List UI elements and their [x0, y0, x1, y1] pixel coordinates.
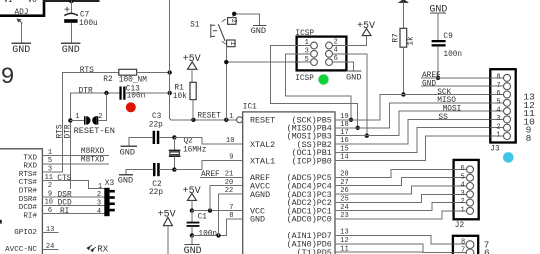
- wire VCC to IC1 pin7: [192, 210, 243, 212]
- wire AGND to IC1 pin22: [219, 194, 243, 235]
- junction AGND branch: [216, 233, 220, 237]
- svg-text:GND: GND: [12, 45, 30, 56]
- svg-text:GND: GND: [62, 45, 80, 56]
- LED RX (arrows + label): [86, 244, 108, 254]
- svg-text:20: 20: [225, 179, 233, 187]
- junction SCK/PB5: [349, 118, 353, 122]
- junction R1/RESET: [191, 118, 195, 122]
- svg-text:9: 9: [229, 154, 233, 162]
- wire XTAL2 to IC1 pin10: [174, 137, 242, 144]
- svg-text:7: 7: [229, 204, 233, 212]
- svg-text:(T1)PD5: (T1)PD5: [297, 248, 332, 254]
- svg-text:GND: GND: [251, 26, 266, 36]
- wire PD6 to J1 pin7: [335, 244, 466, 253]
- wire +5V rail from regulator output: [44, 0, 99, 2]
- red marker dot: [126, 102, 136, 112]
- svg-text:5: 5: [496, 98, 500, 106]
- svg-text:1: 1: [229, 113, 233, 121]
- svg-text:RI#: RI#: [23, 212, 37, 220]
- svg-text:DTR#: DTR#: [19, 188, 38, 196]
- IC1 right pin numbers: [340, 113, 348, 253]
- pin ADJ arrow: [17, 19, 23, 23]
- junction C13/rail: [168, 91, 172, 95]
- ground (regulator ADJ): [12, 43, 31, 56]
- svg-text:DSR#: DSR#: [19, 196, 38, 204]
- svg-text:100n: 100n: [127, 93, 146, 101]
- svg-text:C3: C3: [152, 113, 162, 121]
- connector J1: [453, 236, 478, 254]
- wire DCD# to X3 pin3: [42, 200, 104, 208]
- wire PB1 to J3 pin2: [335, 128, 503, 153]
- wire PC1 to J2 pin2: [335, 203, 466, 211]
- +5V supply (R1 pull-up): [183, 54, 201, 82]
- wire PD7 to J1 pin8: [335, 235, 466, 244]
- svg-text:RXD: RXD: [23, 163, 37, 171]
- svg-text:100n: 100n: [198, 231, 217, 239]
- wire PB0 to J3 pin1: [335, 136, 503, 161]
- junction XTAL2 node: [172, 135, 176, 139]
- svg-text:100_NM: 100_NM: [119, 76, 147, 84]
- svg-text:6: 6: [461, 165, 465, 173]
- wire PB4 to J3 MISO: [335, 103, 503, 128]
- connector X3: [97, 180, 115, 216]
- +5V supply (VCC/C1): [183, 186, 201, 211]
- svg-text:MOSI: MOSI: [443, 106, 462, 114]
- capacitor C2 22p: [126, 163, 174, 197]
- IC1 pin 1 RESET bubble: [229, 113, 242, 123]
- cut text fragment at left edge: [0, 220, 2, 224]
- wire GPIO2 stub: [42, 232, 57, 234]
- wire AVCC-NC stub: [42, 248, 57, 250]
- ICSP header: [295, 30, 346, 83]
- svg-text:4: 4: [496, 107, 500, 115]
- svg-text:GND: GND: [120, 148, 135, 158]
- svg-text:100n: 100n: [443, 51, 462, 59]
- ground (C9): [429, 4, 447, 40]
- capacitor C3 22p: [129, 113, 175, 145]
- junction on +5V rail: [69, 0, 74, 3]
- wire ADJ to ground: [21, 23, 23, 43]
- wire PB2 to J3 SS: [335, 119, 503, 144]
- svg-text:GND: GND: [346, 73, 361, 83]
- svg-text:4: 4: [461, 182, 465, 190]
- svg-text:(ADC0)PC0: (ADC0)PC0: [287, 215, 332, 225]
- junction DTR/jumper branch: [104, 91, 108, 95]
- svg-text:1: 1: [461, 207, 465, 215]
- svg-text:8: 8: [461, 238, 465, 246]
- svg-text:GND: GND: [422, 81, 436, 89]
- ground (C1): [184, 245, 202, 254]
- connector J2: [454, 160, 479, 230]
- voltage regulator IC (top-left, partly cut): [0, 0, 44, 17]
- wire ICSP pin1 MISO to PB4: [271, 46, 358, 128]
- svg-text:DTR: DTR: [79, 87, 93, 95]
- green marker dot: [318, 74, 328, 84]
- svg-text:S1: S1: [190, 22, 200, 30]
- junction C9/AREF: [436, 76, 440, 80]
- reset rail (vertical) to RESET line: [170, 0, 237, 120]
- svg-text:6: 6: [334, 55, 338, 63]
- svg-text:1: 1: [98, 183, 102, 191]
- svg-text:21: 21: [225, 171, 233, 179]
- svg-text:7: 7: [496, 82, 500, 90]
- FT232 USB chip (left, partly cut): [0, 149, 42, 254]
- pushbutton S1: [190, 18, 237, 47]
- wire PB5 to J3 SCK: [335, 95, 503, 120]
- svg-text:1: 1: [75, 113, 79, 121]
- ground (C3): [120, 146, 137, 158]
- svg-text:RTS: RTS: [80, 67, 94, 75]
- svg-text:10k: 10k: [173, 93, 187, 101]
- +5V supply (ICSP): [357, 21, 375, 36]
- svg-text:100u: 100u: [79, 20, 98, 28]
- wire PD5 row: [335, 251, 423, 253]
- svg-text:Q2: Q2: [184, 138, 194, 146]
- wire PC0 to J2 pin1: [335, 211, 466, 219]
- svg-text:1: 1: [496, 132, 500, 140]
- wire PC3 to J2 pin4: [335, 186, 466, 194]
- wire PB3 to J3 MOSI: [335, 111, 503, 136]
- svg-text:2: 2: [97, 191, 101, 199]
- svg-text:2: 2: [48, 182, 52, 190]
- svg-text:7: 7: [461, 247, 465, 254]
- wire AREF to J3 pin8: [422, 77, 504, 79]
- junction S1/RESET: [224, 118, 228, 122]
- svg-text:1k: 1k: [408, 36, 416, 46]
- svg-text:6: 6: [484, 248, 490, 254]
- svg-text:TXD: TXD: [23, 154, 37, 162]
- wire PC4 to J2 pin5: [335, 178, 466, 186]
- svg-text:2: 2: [334, 38, 338, 46]
- svg-text:C9: C9: [443, 33, 453, 41]
- svg-text:XTAL2: XTAL2: [250, 140, 275, 150]
- wire PC5 to J2 pin6: [335, 169, 466, 177]
- svg-text:IC1: IC1: [243, 104, 257, 112]
- svg-text:3: 3: [496, 115, 500, 123]
- svg-text:DTR: DTR: [64, 124, 72, 138]
- svg-text:J3: J3: [490, 146, 500, 154]
- +5V supply (standalone, near X3): [158, 209, 176, 254]
- svg-text:5: 5: [305, 56, 309, 64]
- svg-text:RESET-EN: RESET-EN: [74, 126, 115, 136]
- ground (C7): [62, 43, 81, 56]
- svg-text:22p: 22p: [149, 121, 163, 129]
- svg-text:6: 6: [496, 90, 500, 98]
- svg-text:CTS: CTS: [57, 175, 71, 183]
- svg-text:2: 2: [229, 19, 237, 23]
- svg-text:5: 5: [461, 173, 465, 181]
- svg-text:3: 3: [461, 190, 465, 198]
- IC1 ATmega (main MCU): [243, 104, 335, 254]
- svg-text:R2: R2: [103, 76, 113, 84]
- capacitor C1 100n: [187, 211, 218, 239]
- wire RXD / net M8TXD: [42, 157, 108, 165]
- svg-text:1: 1: [305, 39, 309, 47]
- svg-text:RTS: RTS: [57, 124, 65, 138]
- capacitor C7 100u (polarized): [64, 1, 98, 43]
- connector J3: [490, 69, 515, 153]
- svg-text:VI: VI: [4, 0, 13, 5]
- svg-text:8: 8: [496, 74, 500, 82]
- svg-text:MISO: MISO: [437, 97, 456, 105]
- wire RTS# stub: [42, 171, 62, 173]
- crystal Q2 16MHz: [169, 137, 207, 169]
- resistor R2 100_NM: [103, 69, 147, 84]
- svg-text:AREF: AREF: [422, 72, 441, 80]
- wire DSR# to X3 pin2: [42, 191, 104, 199]
- resistor R1 10k: [173, 82, 196, 120]
- wire AVCC to IC1 pin20: [210, 186, 243, 211]
- wire S1 top pin to GND: [233, 14, 260, 25]
- svg-text:CTS#: CTS#: [19, 179, 38, 187]
- wire S1 bottom pin to RESET line and ICSP pin5: [226, 47, 296, 120]
- IC1 left pin names: [250, 116, 275, 225]
- svg-text:ICSP: ICSP: [295, 75, 314, 83]
- FT232 pin numbers: [45, 149, 55, 251]
- svg-text:C2: C2: [152, 181, 162, 189]
- svg-text:C7: C7: [80, 12, 90, 20]
- cyan marker dot: [503, 152, 514, 163]
- svg-text:VO: VO: [28, 0, 38, 5]
- solder jumper RESET-EN: [68, 93, 115, 136]
- svg-text:M8TXD: M8TXD: [81, 157, 105, 165]
- wire C13 to reset rail: [126, 92, 170, 94]
- svg-text:R7: R7: [393, 33, 401, 43]
- svg-text:2: 2: [496, 123, 500, 131]
- svg-text:R1: R1: [174, 85, 184, 93]
- junction R7/SCK: [401, 92, 405, 96]
- svg-text:RI: RI: [60, 208, 69, 216]
- svg-text:GND: GND: [250, 215, 265, 225]
- resistor R7 1k: [393, 28, 416, 94]
- svg-text:X3: X3: [105, 180, 115, 188]
- wire XTAL1 to IC1 pin9: [174, 161, 242, 170]
- svg-text:AVCC-NC: AVCC-NC: [5, 246, 37, 254]
- wire GND to J3 pin7: [422, 85, 504, 87]
- svg-text:4: 4: [334, 47, 338, 55]
- ground (C2): [118, 175, 133, 186]
- wire AREF stub: [201, 176, 243, 178]
- svg-text:XTAL1: XTAL1: [250, 156, 275, 166]
- capacitor C9 100n: [432, 33, 463, 78]
- wire GND net to IC1 pin8: [192, 219, 243, 236]
- junction +5V/VCC: [190, 208, 194, 212]
- svg-text:ADJ: ADJ: [15, 9, 29, 17]
- svg-text:2: 2: [461, 198, 465, 206]
- ground (ICSP): [346, 71, 361, 83]
- wire ICSP pin2 to +5V: [346, 36, 366, 46]
- junction MOSI/PB3: [365, 134, 369, 138]
- J1 arduino pin numbers: [484, 239, 490, 254]
- svg-text:DSR: DSR: [58, 191, 72, 199]
- svg-text:GND: GND: [118, 176, 133, 186]
- svg-text:+5V: +5V: [183, 186, 201, 197]
- svg-text:22p: 22p: [149, 189, 163, 197]
- svg-text:4: 4: [97, 208, 101, 216]
- svg-text:DCD: DCD: [58, 200, 72, 208]
- svg-text:RTS#: RTS#: [19, 171, 38, 179]
- wire TXD / net M8RXD: [42, 148, 108, 156]
- junction C1/GND net: [190, 233, 194, 237]
- svg-text:C1: C1: [198, 213, 208, 221]
- wire DTR (FT232 DTR# up and right to C13): [64, 93, 119, 189]
- junction AVCC branch: [208, 208, 212, 212]
- svg-text:3: 3: [97, 200, 101, 208]
- svg-text:M8RXD: M8RXD: [81, 148, 105, 156]
- wire ICSP pin3 SCK to PB5: [286, 54, 352, 120]
- svg-text:SCK: SCK: [437, 89, 451, 97]
- svg-text:22: 22: [225, 187, 233, 195]
- wire C1 to ground: [191, 235, 193, 244]
- wire R2 to reset rail: [137, 72, 170, 74]
- junction R2/rail: [168, 70, 172, 74]
- svg-text:3: 3: [305, 48, 309, 56]
- junction S1/ICSP reset: [224, 60, 228, 64]
- svg-text:RESET: RESET: [250, 116, 275, 126]
- J3 arduino pin numbers 13..8: [523, 92, 535, 145]
- wire PC2 to J2 pin3: [335, 194, 466, 202]
- IC1 left pin numbers: [225, 137, 235, 220]
- svg-text:GND: GND: [184, 246, 202, 254]
- svg-text:10: 10: [226, 137, 234, 145]
- svg-text:(ICP)PB0: (ICP)PB0: [292, 156, 332, 166]
- svg-text:RESET: RESET: [197, 113, 221, 121]
- wire CTS# to X3 pin1: [42, 175, 104, 189]
- wire ICSP pin4 MOSI to PB3: [346, 54, 366, 136]
- junction S1 top: [232, 12, 236, 16]
- svg-text:1: 1: [228, 41, 236, 45]
- svg-text:J2: J2: [455, 222, 465, 230]
- svg-text:8: 8: [526, 133, 532, 144]
- junction XTAL1 node: [172, 167, 176, 171]
- capacitor C13 100n: [119, 86, 145, 101]
- svg-text:DCD#: DCD#: [19, 204, 38, 212]
- svg-text:9: 9: [1, 64, 15, 91]
- svg-text:8: 8: [229, 212, 233, 220]
- svg-text:GPIO2: GPIO2: [14, 229, 37, 237]
- +5V supply (above R7, arrowhead cut): [399, 0, 407, 28]
- svg-text:SS: SS: [438, 114, 448, 122]
- wire ICSP pin6 to GND: [346, 62, 353, 70]
- wire RI# to X3 pin4: [42, 208, 104, 216]
- svg-text:AGND: AGND: [250, 190, 270, 200]
- ground (S1): [251, 25, 266, 36]
- junction MISO/PB4: [356, 126, 360, 130]
- wire RTS (FT232 RTS# up and right to R2): [57, 73, 119, 173]
- svg-text:16MHz: 16MHz: [183, 147, 207, 155]
- svg-text:RX: RX: [97, 244, 108, 254]
- IC1 right pin names: [287, 116, 332, 254]
